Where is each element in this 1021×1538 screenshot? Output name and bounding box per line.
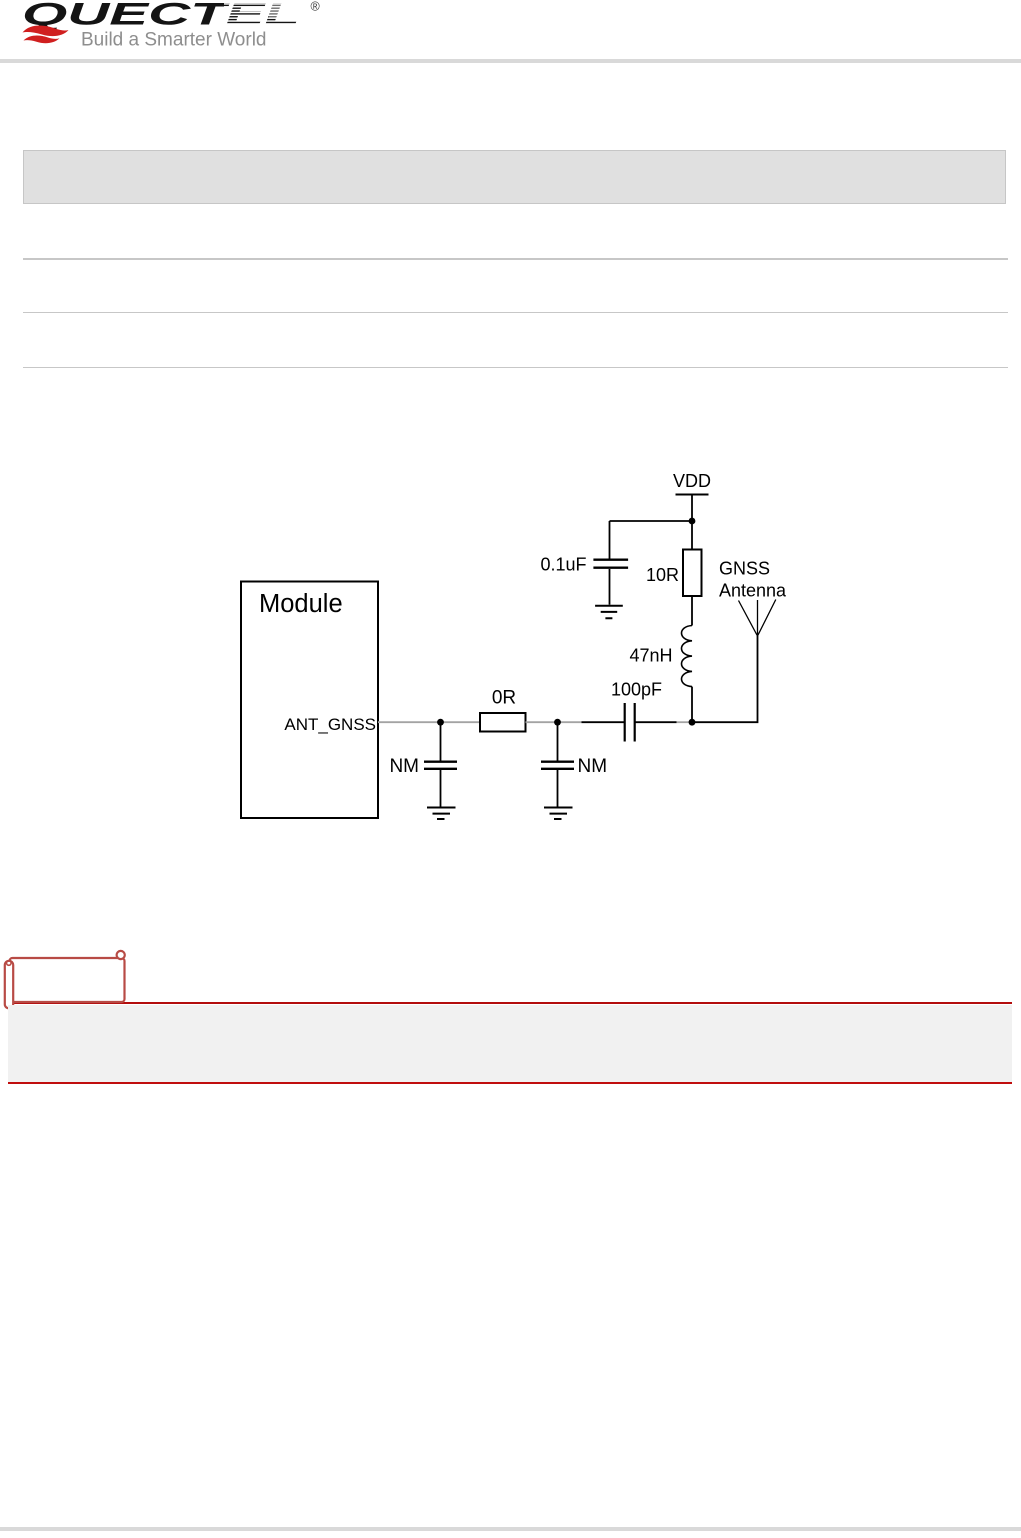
note scroll ribbon [0,945,140,1015]
svg-text:NM: NM [578,756,608,777]
capacitor C1 plates [424,761,457,763]
svg-text:®: ® [311,0,321,13]
capacitor C2 lower lead [557,770,559,807]
module U1 box [241,582,378,819]
wire R2 to L1 [691,596,693,626]
table row line 2 [23,312,1008,314]
ground GND1 [427,808,456,820]
Quectel logo [0,0,340,56]
resistor R1 0R body [480,713,526,732]
inductor L1 47nH coil [682,626,693,687]
wire node B to C3 [582,721,625,723]
svg-text:100pF: 100pF [611,680,662,700]
ground GND2 [544,808,573,820]
scroll top-right curl [117,951,125,959]
svg-text:0.1uF: 0.1uF [540,555,586,575]
node A junction dot [437,719,444,726]
wire node D to R2 [691,521,693,550]
header rule [0,59,1021,63]
note bottom red rule [8,1082,1012,1084]
svg-text:ANT_GNSS: ANT_GNSS [284,715,376,734]
ground GND3 [595,606,623,619]
wire C3 to node C [635,721,677,723]
capacitor C1 NM (left shunt) lead [440,722,442,760]
svg-text:VDD: VDD [673,471,711,491]
wire node D to C4 [610,520,693,522]
wire ANT_GNSS pin to node A (gray) [378,721,480,723]
resistor R2 10R body [683,550,702,597]
scroll left curl [7,961,12,966]
capacitor C4 lower lead [609,569,611,605]
svg-text:GNSS: GNSS [719,559,770,579]
logo wordmark QUECTEL [22,0,314,32]
VDD power bar [676,494,709,496]
capacitor C4 plates [593,559,628,561]
scroll left roll [5,961,13,1009]
wire R1 to node B (gray) [526,721,582,723]
svg-text:NM: NM [389,756,419,777]
note top red rule [13,1002,1012,1004]
red swoosh [23,26,69,37]
capacitor C2 NM (right shunt) lead [557,722,559,760]
svg-text:47nH: 47nH [629,646,672,666]
table row line 1 [23,258,1008,260]
node B junction dot [554,719,561,726]
wire gray stub before node C [677,721,693,723]
scroll body [10,958,125,1002]
wire VDD bar to node D [691,495,693,522]
table row line 3 [23,367,1008,369]
svg-text:Module: Module [259,590,343,618]
table header band [23,150,1006,204]
antenna ANT1 symbol [739,600,776,637]
circuit schematic [0,440,1021,860]
footer rule [0,1527,1021,1531]
capacitor C3 100pF plates [624,703,626,742]
wire L1 to node C [691,687,693,723]
note gray band [8,1005,1012,1083]
svg-text:10R: 10R [646,565,679,585]
stripes over EL [224,3,313,24]
capacitor C4 0.1uF top lead [609,521,611,559]
node D junction dot [689,518,696,525]
node C junction dot [689,719,696,726]
capacitor C1 lower lead [440,770,442,807]
capacitor C2 plates [541,761,574,763]
wire node C to antenna [692,636,758,722]
svg-text:Antenna: Antenna [719,581,787,601]
svg-text:Build a Smarter World: Build a Smarter World [81,30,267,51]
svg-text:0R: 0R [492,688,516,709]
